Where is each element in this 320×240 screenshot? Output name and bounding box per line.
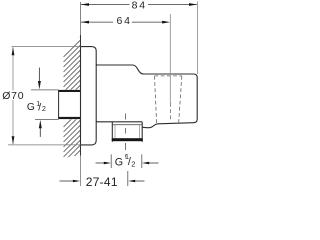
G1/2 top label arrows xyxy=(38,68,42,137)
svg-text:G: G xyxy=(27,102,35,113)
svg-text:84: 84 xyxy=(132,0,147,12)
socket bottom extension line xyxy=(35,118,58,120)
escutcheon plate xyxy=(81,47,97,145)
27-41 dimension xyxy=(60,171,145,189)
wall hatching xyxy=(64,34,82,177)
84 dimension xyxy=(81,0,197,12)
svg-text:G: G xyxy=(115,156,123,168)
main body xyxy=(96,64,197,128)
G1/2 wall socket xyxy=(58,90,80,119)
top dimension extension lines xyxy=(196,2,198,75)
spigot centerline dash-dot xyxy=(125,114,127,158)
bottom G1/2 dimension xyxy=(96,152,159,168)
O70 dimension line with arrows xyxy=(12,47,15,144)
svg-text:/: / xyxy=(38,101,41,113)
64 dimension xyxy=(81,15,170,27)
wall face line and its dimension extensions xyxy=(80,2,82,35)
O70 extension lines xyxy=(12,46,81,48)
svg-text:2: 2 xyxy=(42,104,46,113)
socket top extension line xyxy=(31,89,58,91)
diameter label Ø70 xyxy=(2,90,24,100)
svg-text:27-41: 27-41 xyxy=(86,175,118,188)
outlet spigot xyxy=(112,122,143,142)
svg-text:Ø70: Ø70 xyxy=(2,90,24,102)
svg-text:2: 2 xyxy=(131,159,135,168)
svg-text:64: 64 xyxy=(117,15,132,27)
hidden holder hole (dashed) xyxy=(155,76,182,123)
